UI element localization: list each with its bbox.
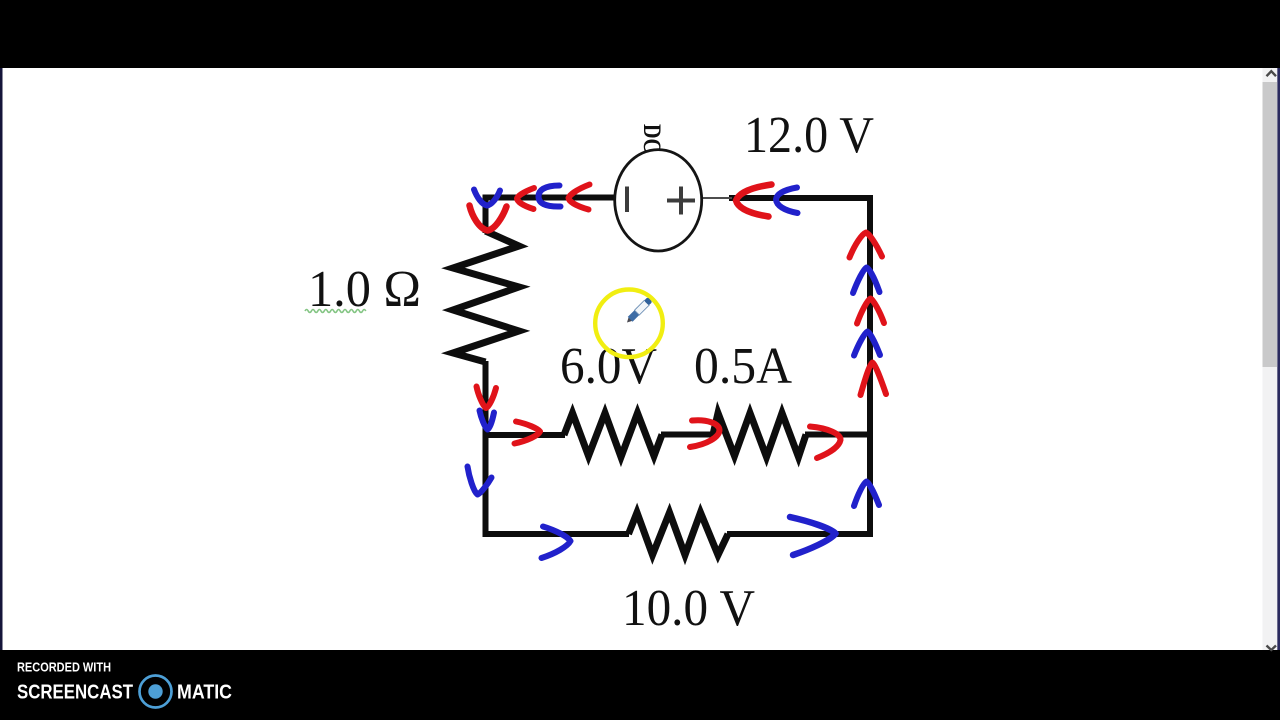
scrollbar thumb [1263, 82, 1278, 367]
wire bottom-right segment [727, 531, 873, 537]
current arrow blue up 1 (right wire) [853, 268, 880, 294]
current arrow red up 2 (right wire) [857, 299, 884, 324]
current arrow blue up 3 (right wire lower) [854, 482, 879, 507]
wire right vertical [867, 195, 873, 537]
current arrow red up 1 (right wire) [850, 233, 883, 258]
current arrow red right 2 (middle wire) [690, 420, 720, 447]
svg-text:12.0 V: 12.0 V [744, 107, 874, 164]
battery source U1 circle [615, 150, 702, 251]
current arrow red big swoosh (right of battery) [736, 185, 772, 217]
wire middle-right segment [805, 432, 873, 438]
logo circle icon [140, 676, 172, 708]
svg-text:RECORDED WITH: RECORDED WITH [17, 660, 111, 675]
wire left vertical lower [483, 361, 489, 537]
wire middle-center segment [661, 432, 714, 438]
resistor R3 (middle row right zigzag) [713, 413, 806, 457]
wire top-right segment [729, 195, 873, 201]
battery minus terminal [625, 187, 629, 213]
svg-text:6.0V: 6.0V [560, 338, 657, 395]
scrollbar track [1263, 68, 1278, 650]
current arrow red U (top-left corner) [470, 206, 507, 231]
svg-text:SCREENCAST: SCREENCAST [17, 681, 133, 704]
window right border [1277, 68, 1280, 650]
window left border [0, 68, 3, 650]
cursor pencil icon [625, 297, 653, 325]
current arrow blue C (top wire) [539, 186, 561, 207]
wire left vertical upper [483, 195, 489, 234]
current arrow blue up 2 (right wire) [854, 332, 880, 356]
svg-text:0.5A: 0.5A [694, 338, 792, 395]
battery plus terminal [667, 187, 695, 215]
resistor R1 1.0 ohm (left vertical zigzag) [453, 231, 519, 362]
current arrow red chevron left 1 (top wire) [517, 188, 534, 209]
top black bar [0, 0, 1280, 68]
resistor R2 (middle row left zigzag) [564, 413, 662, 457]
scrollbar up arrow [1267, 71, 1277, 76]
current arrow blue down 1 (left wire) [480, 411, 495, 430]
scrollbar down arrow [1267, 646, 1277, 651]
wire bottom-left segment [483, 531, 630, 537]
current arrow red right 1 (middle wire) [515, 422, 541, 444]
bottom black bar [0, 650, 1280, 720]
current arrow blue right 1 (bottom wire) [542, 527, 571, 559]
current arrow red down (left wire) [477, 387, 497, 409]
current arrow blue down 2 (left wire lower) [468, 467, 492, 495]
svg-text:10.0 V: 10.0 V [622, 580, 755, 637]
wire top-left segment [483, 195, 619, 201]
current arrow blue u (top-left corner) [474, 190, 500, 206]
wire middle-left segment [483, 432, 566, 438]
wire thin lead right of battery [701, 197, 732, 199]
cursor highlight yellow circle [595, 290, 663, 358]
svg-text:MATIC: MATIC [177, 681, 232, 704]
current arrow red chevron left 2 (top wire) [569, 185, 590, 210]
squiggle under 1.0 [305, 310, 366, 313]
current arrow blue chevron (right of battery) [776, 188, 798, 214]
current arrow red right 3 (middle wire end) [810, 427, 841, 459]
resistor R4 (bottom zigzag) [629, 513, 729, 556]
current arrow red up 3 (right wire) [861, 363, 887, 396]
current arrow blue right 2 (bottom wire) [790, 517, 836, 555]
